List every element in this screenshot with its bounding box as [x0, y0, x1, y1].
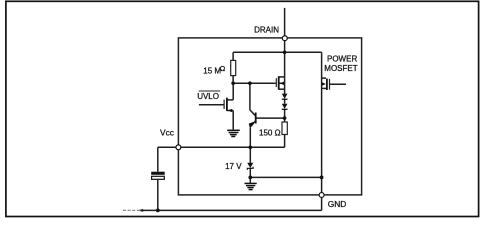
svg-text:UVLO: UVLO — [197, 92, 219, 101]
svg-text:MOSFET: MOSFET — [324, 64, 357, 73]
svg-text:DRAIN: DRAIN — [254, 26, 279, 35]
svg-text:POWER: POWER — [327, 54, 357, 63]
svg-text:GND: GND — [328, 199, 347, 209]
svg-text:17 V: 17 V — [225, 162, 242, 171]
svg-text:Ω: Ω — [220, 64, 226, 73]
svg-text:150 Ω: 150 Ω — [259, 129, 281, 138]
svg-text:Vcc: Vcc — [160, 128, 174, 138]
